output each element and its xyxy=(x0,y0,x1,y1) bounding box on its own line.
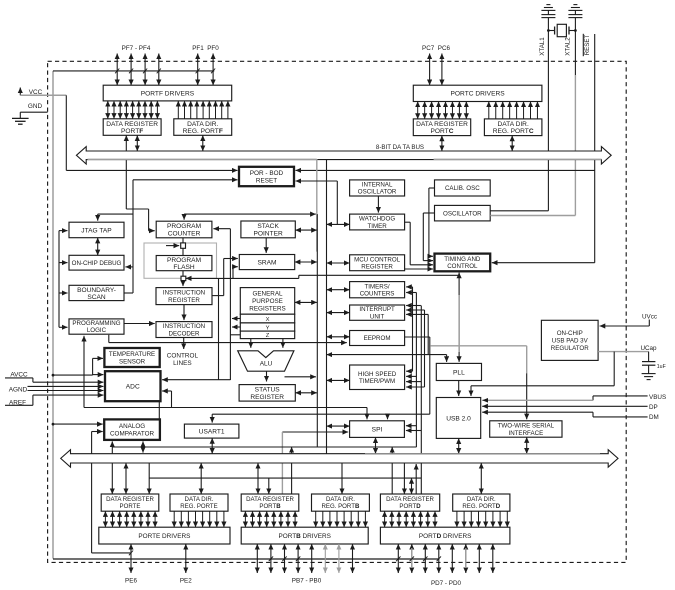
svg-text:INTERFACE: INTERFACE xyxy=(508,430,543,437)
wire timers to bus xyxy=(327,289,350,291)
grey power line inside top bus xyxy=(88,158,317,160)
wire VCC corner to POR-BOD xyxy=(65,95,67,170)
svg-text:EEPROM: EEPROM xyxy=(364,335,391,342)
wire analog mux to comparator xyxy=(92,431,103,433)
svg-text:REGISTER: REGISTER xyxy=(361,264,393,271)
wire USB to bottom bus xyxy=(458,438,460,453)
wire instruction path to SRAM 1 xyxy=(224,258,238,260)
svg-text:REGULATOR: REGULATOR xyxy=(551,345,589,352)
wire bus to portb dir register xyxy=(341,463,343,494)
wire comparator output xyxy=(111,441,113,447)
wire stack pointer to SRAM xyxy=(265,238,267,253)
wire timers right 2 xyxy=(406,292,416,294)
PORTB DRIVERS block xyxy=(241,527,368,544)
INSTRUCTION DECODER block xyxy=(156,322,212,338)
wire bus to porte register 2 xyxy=(125,463,127,494)
wire into SPI right 1 xyxy=(406,425,417,427)
DATA REGISTER PORTD block xyxy=(380,494,439,511)
PF0 pin arrow xyxy=(212,54,214,86)
wire instruction register to decoder xyxy=(183,305,185,321)
svg-text:POR - BOD: POR - BOD xyxy=(250,170,284,177)
DATA DIR REG PORTF block xyxy=(174,119,232,136)
wire calib osc to timing xyxy=(429,187,435,189)
DATA REGISTER PORTC block xyxy=(413,119,470,136)
svg-text:PURPOSE: PURPOSE xyxy=(252,298,283,305)
wire AGND to ADC xyxy=(28,385,104,387)
wire program flash to instruction register xyxy=(182,271,184,286)
wire timers right 1 xyxy=(406,286,412,288)
register Y row xyxy=(240,323,294,331)
svg-text:DATA DIR.: DATA DIR. xyxy=(185,496,214,503)
svg-text:INTERNAL: INTERNAL xyxy=(362,182,393,189)
wire interrupt right 1 xyxy=(406,305,421,307)
svg-text:PORTF: PORTF xyxy=(121,128,143,135)
wire SRAM to internal rail xyxy=(295,261,317,263)
svg-text:PC7 PC6: PC7 PC6 xyxy=(422,45,450,52)
wire instruction path to SRAM 2 xyxy=(233,266,238,268)
wire ALU to internal rail xyxy=(285,376,316,378)
BOUNDARY-SCAN block xyxy=(69,285,124,300)
wire UCap grey xyxy=(598,351,649,353)
wire RESET to POR-BOD xyxy=(296,169,595,171)
register X row xyxy=(240,314,294,323)
wire rail to boundary scan xyxy=(59,292,68,294)
grey flash boundary box xyxy=(144,243,217,278)
PORTC drivers-register arrow fan xyxy=(418,102,538,119)
WATCHDOG TIMER block xyxy=(350,214,405,230)
svg-text:INTERRUPT: INTERRUPT xyxy=(359,306,395,313)
svg-text:DATA REGISTER: DATA REGISTER xyxy=(106,121,158,128)
TEMPERATURE SENSOR block xyxy=(104,348,159,367)
svg-text:COUNTER: COUNTER xyxy=(168,230,201,237)
svg-text:REGISTER: REGISTER xyxy=(168,297,200,304)
wire stack rail to program counter xyxy=(213,228,230,230)
XTAL2 load capacitor xyxy=(568,14,582,16)
wire watchdog to bus xyxy=(327,223,350,225)
svg-text:DATA REGISTER: DATA REGISTER xyxy=(246,496,294,503)
svg-text:PORTD DRIVERS: PORTD DRIVERS xyxy=(419,533,471,540)
RESET overline xyxy=(582,34,584,56)
wire programming logic to SPI xyxy=(84,407,367,409)
TIMING AND CONTROL block xyxy=(435,254,491,272)
ANALOG COMPARATOR block xyxy=(104,419,160,440)
wire into high speed timer 3 xyxy=(406,381,421,383)
wire bus to portd dir register xyxy=(480,463,482,494)
svg-text:PROGRAM: PROGRAM xyxy=(167,223,201,230)
wire DATA DIR REG PORTF to data bus xyxy=(202,135,204,151)
wire eeprom to PLL xyxy=(405,336,430,338)
wire programming logic to instruction decoder xyxy=(124,323,155,325)
svg-text:X: X xyxy=(266,317,270,323)
wire into USART1 top xyxy=(211,414,213,422)
wire PLL to USB xyxy=(458,381,460,397)
XTAL2 pin wire upper xyxy=(574,18,576,75)
HIGH SPEED TIMER/PWM block xyxy=(350,365,405,390)
wire JTAG TAP to on-chip debug xyxy=(97,238,99,256)
svg-text:DATA DIR.: DATA DIR. xyxy=(326,496,355,503)
svg-text:DATA DIR.: DATA DIR. xyxy=(467,496,496,503)
svg-text:JTAG TAP: JTAG TAP xyxy=(81,227,112,234)
wire status register to internal rail xyxy=(295,392,317,394)
wire bus to portd register xyxy=(403,463,405,494)
svg-text:8-BIT DA TA BUS: 8-BIT DA TA BUS xyxy=(376,144,424,151)
PC6 pin arrow xyxy=(441,54,443,86)
DATA REGISTER PORTB block xyxy=(241,494,299,511)
wire programming logic to eeprom xyxy=(108,335,110,343)
wire timing and control to PLL xyxy=(458,273,460,276)
PORTD register-driver arrow fan xyxy=(385,511,508,527)
svg-text:RESET: RESET xyxy=(584,34,591,55)
svg-text:HIGH SPEED: HIGH SPEED xyxy=(358,371,397,378)
wire stack pointer to internal rail xyxy=(295,229,317,231)
PROGRAM COUNTER block xyxy=(156,221,212,238)
svg-text:XTAL2: XTAL2 xyxy=(565,37,572,56)
wire column drop from instruction latch xyxy=(218,278,220,380)
PF7 pin arrow xyxy=(116,54,118,86)
svg-text:COUNTERS: COUNTERS xyxy=(360,290,395,297)
wire into high speed timer 2 xyxy=(406,375,416,377)
wire interrupt right 3 xyxy=(406,313,428,315)
wire interrupt right 2 xyxy=(406,309,424,311)
svg-text:UNIT: UNIT xyxy=(370,313,385,320)
PORTD DRIVERS block xyxy=(380,527,510,544)
wire oscillator to timing xyxy=(423,212,434,214)
svg-text:TWO-WIRE SERIAL: TWO-WIRE SERIAL xyxy=(498,423,555,430)
svg-text:SPI: SPI xyxy=(372,426,383,433)
RESET pin wire xyxy=(594,34,596,263)
svg-text:INSTRUCTION: INSTRUCTION xyxy=(163,323,205,330)
ALU block xyxy=(238,351,294,371)
svg-text:PORTF DRIVERS: PORTF DRIVERS xyxy=(141,90,195,97)
UCap ground symbol xyxy=(648,365,650,373)
CALIB OSC block xyxy=(435,180,491,196)
svg-text:TIMER: TIMER xyxy=(367,223,387,230)
svg-text:REG. PORTC: REG. PORTC xyxy=(493,128,534,135)
MCU CONTROL REGISTER block xyxy=(350,255,405,271)
svg-text:ON-CHIP DEBUG: ON-CHIP DEBUG xyxy=(72,260,122,267)
PORTB register-driver arrow fan xyxy=(245,511,365,527)
wire mux line to bottom bus xyxy=(142,447,144,453)
PORTE register-driver arrow fan xyxy=(105,511,223,527)
VCC pin arrow xyxy=(19,88,21,96)
wire programming logic down left column xyxy=(83,336,85,408)
PF5 pin arrow xyxy=(144,54,146,86)
wire interrupt to bus xyxy=(327,312,350,314)
PORTD pin arrows xyxy=(396,544,493,573)
wire DATA DIR REG PORTC to data bus xyxy=(511,136,513,151)
SRAM block xyxy=(239,255,294,270)
JTAG TAP block xyxy=(69,222,124,238)
wire rail to on-chip debug xyxy=(59,262,68,264)
svg-text:SCAN: SCAN xyxy=(87,294,106,301)
PROGRAM FLASH block xyxy=(156,256,212,272)
crystal Y1 xyxy=(557,24,566,36)
svg-text:RESET: RESET xyxy=(256,177,277,184)
wire X row to pointer rail xyxy=(232,318,240,320)
wire AREF to ADC xyxy=(5,404,33,406)
ON-CHIP DEBUG block xyxy=(69,255,124,270)
PE6 pin arrow xyxy=(130,544,132,573)
wire eeprom to bus xyxy=(327,336,350,338)
svg-text:TIMERS/: TIMERS/ xyxy=(365,283,390,290)
XTAL2 pin wire grey segment xyxy=(574,75,576,216)
svg-text:PF1 PF0: PF1 PF0 xyxy=(192,45,219,52)
svg-text:DATA REGISTER: DATA REGISTER xyxy=(106,496,154,503)
register Z row xyxy=(240,331,294,339)
USB 2.0 block xyxy=(436,398,480,439)
svg-text:REG. PORTB: REG. PORTB xyxy=(322,503,360,510)
PF4 pin arrow xyxy=(158,54,160,86)
wire portb net to SPI xyxy=(282,431,348,433)
VCC rail along bottom xyxy=(53,558,439,560)
wire to boundary scan xyxy=(124,292,133,294)
wire VCC rail to temperature sensor xyxy=(52,374,55,377)
wire reset distribution (vertical from POR-BOD input) xyxy=(133,179,238,181)
svg-text:REGISTER: REGISTER xyxy=(250,394,284,401)
STACK POINTER block xyxy=(241,221,295,238)
wire ALU to status register xyxy=(266,371,268,381)
wire oscillator to XTAL2 grey xyxy=(490,215,575,217)
STATUS REGISTER block xyxy=(239,385,295,402)
DATA REGISTER PORTE block xyxy=(101,494,159,511)
wire registers to ALU right xyxy=(282,339,284,348)
svg-text:DATA DIR.: DATA DIR. xyxy=(187,121,218,128)
svg-text:REG. PORTE: REG. PORTE xyxy=(180,503,217,510)
ON-CHIP USB PAD 3V REGULATOR block xyxy=(541,320,598,360)
wire feed line to SPI top xyxy=(387,414,389,419)
wire MCU control to timing and control xyxy=(405,268,433,270)
svg-text:PB7 - PB0: PB7 - PB0 xyxy=(292,578,322,585)
svg-text:OSCILLATOR: OSCILLATOR xyxy=(443,210,482,217)
wire to on-chip debug xyxy=(125,266,133,268)
wire oscillator to XTAL1 xyxy=(490,210,548,212)
svg-text:CALIB. OSC: CALIB. OSC xyxy=(445,185,480,192)
wire bus to porte register 3 with distribution line xyxy=(148,463,150,494)
wire DATA REGISTER PORTC to data bus xyxy=(441,136,443,151)
svg-text:PROGRAM: PROGRAM xyxy=(167,257,201,264)
svg-text:DP: DP xyxy=(649,404,658,411)
DATA REGISTER PORTF block xyxy=(103,119,161,136)
svg-text:FLASH: FLASH xyxy=(173,264,194,271)
wire internal bus to program counter xyxy=(184,213,316,215)
PORTB pin arrows xyxy=(257,544,352,573)
XTAL1 pin wire xyxy=(547,18,549,211)
wire POR-BOD to watchdog xyxy=(296,180,338,182)
PORTC DRIVERS block xyxy=(413,85,542,101)
wire ADC to comparator xyxy=(158,401,160,419)
svg-text:VBUS: VBUS xyxy=(649,394,666,401)
wire USART1 to bottom bus xyxy=(211,438,213,454)
svg-text:OSCILLATOR: OSCILLATOR xyxy=(358,189,397,196)
svg-text:PORTC: PORTC xyxy=(431,128,454,135)
wire AGND to ADC 2 xyxy=(28,390,104,392)
instruction latch square xyxy=(181,276,186,280)
svg-text:STACK: STACK xyxy=(257,223,279,230)
wire portd register to mux line xyxy=(391,463,393,494)
internal data bus rail xyxy=(316,214,318,447)
svg-text:DM: DM xyxy=(649,414,659,421)
svg-text:PD7 - PD0: PD7 - PD0 xyxy=(431,580,462,587)
svg-text:PE2: PE2 xyxy=(180,578,192,585)
svg-text:LINES: LINES xyxy=(173,360,191,367)
wire internal oscillator to watchdog xyxy=(377,196,379,213)
svg-text:XTAL1: XTAL1 xyxy=(539,37,546,56)
wire DM xyxy=(593,416,648,418)
bottom 8-bit data bus arrow xyxy=(61,450,618,467)
svg-text:COMPARATOR: COMPARATOR xyxy=(110,431,155,438)
svg-text:DATA REGISTER: DATA REGISTER xyxy=(416,121,468,128)
wire control lines to ADC xyxy=(162,379,230,381)
svg-text:AVCC: AVCC xyxy=(10,371,28,378)
PE2 pin arrow xyxy=(185,544,187,573)
DATA DIR REG PORTD block xyxy=(453,494,510,511)
wire portb register to comparator line xyxy=(291,463,293,494)
grey power line inside top bus right segment xyxy=(434,158,602,160)
wire to portb register from distribution xyxy=(268,478,270,494)
wire SPI to bottom bus xyxy=(375,437,377,453)
grey overlay on bottom bus xyxy=(365,453,600,455)
svg-text:DATA REGISTER: DATA REGISTER xyxy=(386,496,434,503)
wire two-wire to bottom bus xyxy=(526,437,528,454)
svg-text:DECODER: DECODER xyxy=(169,330,200,337)
svg-text:SRAM: SRAM xyxy=(257,259,276,266)
wire RESET to timing and control xyxy=(492,262,595,264)
wire timing to two-wire interface xyxy=(430,345,527,347)
svg-text:WATCHDOG: WATCHDOG xyxy=(359,216,395,223)
OSCILLATOR block xyxy=(435,205,491,221)
wire Z row to pointer rail xyxy=(230,334,240,336)
svg-text:PORTB DRIVERS: PORTB DRIVERS xyxy=(278,533,330,540)
TIMERS/COUNTERS block xyxy=(350,282,405,298)
wire bus to porte register 1 xyxy=(111,447,113,453)
wire portd register to bus xyxy=(415,464,417,494)
wire decoder to control lines xyxy=(183,338,185,350)
wire into high speed timer 4 xyxy=(406,386,424,388)
wire UVcc to regulator xyxy=(648,320,650,327)
POR-BOD RESET block xyxy=(239,167,294,186)
wire into high speed timer 1 xyxy=(406,370,412,372)
svg-text:PF7 - PF4: PF7 - PF4 xyxy=(122,45,151,52)
svg-text:TEMPERATURE: TEMPERATURE xyxy=(109,351,155,358)
wire rail to programming logic xyxy=(59,326,68,328)
PF1 pin arrow xyxy=(197,54,199,86)
svg-text:Z: Z xyxy=(266,333,270,339)
wire instruction register right xyxy=(212,295,224,297)
wire distribution to portd register xyxy=(411,478,413,494)
wire DP xyxy=(482,405,647,407)
register distribution line xyxy=(149,477,421,479)
chip boundary (dashed border) xyxy=(48,61,627,562)
grey wire SPI net to portb xyxy=(281,432,283,453)
wire mux line to comparator xyxy=(142,441,144,447)
PORTE DRIVERS block xyxy=(99,527,230,544)
svg-text:PORTB: PORTB xyxy=(259,503,281,510)
PF6 pin arrow xyxy=(130,54,132,86)
XTAL1 ground symbol xyxy=(547,10,549,14)
wire VBUS xyxy=(593,395,648,397)
svg-text:PE6: PE6 xyxy=(125,578,137,585)
svg-text:1uF: 1uF xyxy=(657,364,666,370)
DATA DIR REG PORTC block xyxy=(484,119,542,136)
svg-text:ALU: ALU xyxy=(260,361,273,368)
wire bus to portb register xyxy=(257,463,259,494)
svg-text:PORTD: PORTD xyxy=(399,503,421,510)
long wire under comparator (mux line) xyxy=(112,446,416,448)
EEPROM block xyxy=(350,331,405,346)
PROGRAMMING LOGIC block xyxy=(69,319,124,334)
PORTF DRIVERS block xyxy=(103,85,232,101)
wire regulator line to USB top xyxy=(470,386,472,396)
long wire port F register to program counter xyxy=(125,135,127,209)
PC7 pin arrow xyxy=(429,54,431,86)
svg-text:STATUS: STATUS xyxy=(255,387,281,394)
svg-text:BOUNDARY-: BOUNDARY- xyxy=(77,287,116,294)
svg-text:POINTER: POINTER xyxy=(253,230,283,237)
svg-text:AGND: AGND xyxy=(9,387,28,394)
svg-text:TIMING AND: TIMING AND xyxy=(444,256,481,263)
grey power rail drop at internal bus xyxy=(316,159,318,252)
wire rail to JTAG TAP xyxy=(59,230,68,232)
XTAL1 load capacitor xyxy=(541,14,555,16)
wire into SPI right 2 xyxy=(406,430,421,432)
top 8-bit data bus arrow xyxy=(76,147,611,164)
wire watchdog to timing and control xyxy=(405,221,411,223)
wire VCC rail to ADC xyxy=(93,374,104,376)
VCC grey feed line xyxy=(20,94,66,96)
svg-text:REGISTERS: REGISTERS xyxy=(249,306,285,313)
wire to JTAG TAP top xyxy=(98,213,133,215)
XTAL2 ground symbol xyxy=(574,10,576,14)
PORTF drivers-register arrow fan xyxy=(108,101,228,119)
wire USART1 feed line xyxy=(212,413,430,415)
top VCC rail horizontal xyxy=(53,70,214,72)
wire UCap to USB pad xyxy=(613,352,615,386)
svg-text:USB PAD 3V: USB PAD 3V xyxy=(552,338,589,345)
address latch square xyxy=(181,243,186,248)
svg-text:LOGIC: LOGIC xyxy=(87,327,107,334)
ground symbol (GND pin) xyxy=(19,112,21,118)
GND wire xyxy=(20,111,47,113)
wire MCU control to bus xyxy=(327,262,350,264)
svg-text:ANALOG: ANALOG xyxy=(119,423,145,430)
svg-text:PORTE DRIVERS: PORTE DRIVERS xyxy=(138,533,190,540)
svg-text:TIMER/PWM: TIMER/PWM xyxy=(359,378,395,385)
svg-text:GND: GND xyxy=(28,103,43,110)
svg-text:UVcc: UVcc xyxy=(642,313,657,320)
svg-text:CONTROL: CONTROL xyxy=(167,352,199,359)
wire into address latch xyxy=(166,245,179,247)
wire high speed timer to bus xyxy=(327,379,350,381)
wire registers to internal rail xyxy=(295,301,317,303)
UCap capacitor xyxy=(648,352,650,362)
INTERNAL OSCILLATOR block xyxy=(350,180,405,196)
wire DATA REGISTER PORTF to data bus xyxy=(136,135,138,151)
stack/pointer rail vertical xyxy=(229,229,231,380)
wire AVCC to ADC xyxy=(5,377,33,379)
ADC block xyxy=(105,371,161,401)
wire instruction latch to timing and control xyxy=(186,277,299,279)
DATA DIR REG PORTE block xyxy=(170,494,228,511)
svg-text:PLL: PLL xyxy=(453,369,465,376)
wire bus to porte dir register xyxy=(200,463,202,494)
PLL block xyxy=(436,363,481,380)
svg-text:SENSOR: SENSOR xyxy=(119,358,146,365)
INTERRUPT UNIT block xyxy=(350,305,405,320)
SPI block xyxy=(350,421,405,438)
wire VCC rail to comparator xyxy=(52,423,55,426)
USART1 block xyxy=(184,424,239,438)
svg-text:PORTC DRIVERS: PORTC DRIVERS xyxy=(451,91,506,98)
